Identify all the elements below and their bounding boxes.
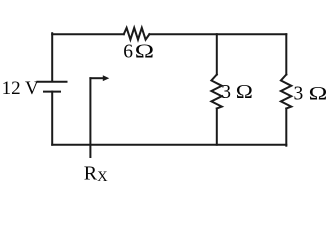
svg-text:3: 3 (221, 82, 231, 103)
svg-text:RX: RX (84, 162, 108, 185)
svg-text:Ω: Ω (135, 40, 154, 61)
svg-text:3: 3 (294, 83, 304, 104)
svg-text:12 V: 12 V (2, 78, 39, 99)
svg-text:Ω: Ω (309, 82, 328, 104)
svg-text:Ω: Ω (236, 80, 253, 102)
svg-text:6: 6 (123, 41, 133, 62)
